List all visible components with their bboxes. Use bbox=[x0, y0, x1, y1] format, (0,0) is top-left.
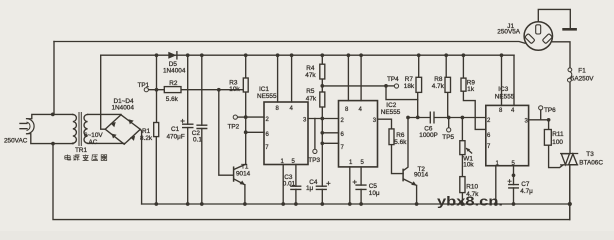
svg-text:R4: R4 bbox=[306, 65, 315, 72]
svg-text:10k: 10k bbox=[463, 161, 474, 168]
svg-text:F1: F1 bbox=[578, 67, 586, 74]
svg-text:IC3: IC3 bbox=[498, 86, 508, 93]
svg-text:NE555: NE555 bbox=[257, 93, 277, 100]
svg-text:AC: AC bbox=[89, 139, 98, 146]
svg-text:TR1: TR1 bbox=[75, 147, 88, 154]
svg-text:TP6: TP6 bbox=[544, 107, 556, 114]
svg-text:250V5A: 250V5A bbox=[497, 29, 520, 36]
svg-text:5.6k: 5.6k bbox=[166, 96, 179, 103]
svg-text:4.7k: 4.7k bbox=[432, 83, 445, 90]
svg-text:1N4004: 1N4004 bbox=[112, 104, 135, 111]
svg-text:NE555: NE555 bbox=[495, 94, 515, 101]
svg-text:R8: R8 bbox=[434, 76, 443, 83]
svg-text:T1: T1 bbox=[241, 163, 249, 170]
svg-text:10k: 10k bbox=[229, 86, 240, 93]
svg-text:0.1: 0.1 bbox=[193, 137, 202, 144]
svg-text:9014: 9014 bbox=[236, 170, 251, 177]
svg-text:5.6k: 5.6k bbox=[394, 139, 407, 146]
svg-text:NE555: NE555 bbox=[381, 109, 401, 116]
svg-text:R2: R2 bbox=[169, 80, 178, 87]
svg-text:IC1: IC1 bbox=[259, 86, 269, 93]
svg-text:1k: 1k bbox=[467, 86, 475, 93]
svg-text:47k: 47k bbox=[305, 72, 316, 79]
svg-text:R11: R11 bbox=[552, 131, 564, 138]
svg-text:TP5: TP5 bbox=[442, 134, 454, 141]
svg-text:C7: C7 bbox=[521, 181, 530, 188]
svg-text:R6: R6 bbox=[396, 132, 405, 139]
svg-text:47k: 47k bbox=[306, 95, 317, 102]
svg-text:9014: 9014 bbox=[414, 172, 429, 179]
svg-text:TP2: TP2 bbox=[228, 123, 240, 130]
svg-text:TP4: TP4 bbox=[387, 76, 399, 83]
svg-text:470μF: 470μF bbox=[167, 134, 185, 141]
svg-text:C5: C5 bbox=[369, 183, 378, 190]
svg-text:1000P: 1000P bbox=[419, 132, 437, 139]
svg-text:250VAC: 250VAC bbox=[4, 138, 28, 145]
svg-text:1μ: 1μ bbox=[306, 185, 314, 192]
svg-text:18k: 18k bbox=[404, 83, 415, 90]
svg-text:0.01: 0.01 bbox=[283, 181, 296, 188]
svg-text:4.7μ: 4.7μ bbox=[520, 188, 533, 195]
svg-text:10μ: 10μ bbox=[369, 190, 380, 197]
svg-text:1N4004: 1N4004 bbox=[163, 67, 186, 74]
svg-text:C1: C1 bbox=[171, 126, 180, 133]
svg-text:5A250V: 5A250V bbox=[571, 75, 594, 82]
svg-text:R10: R10 bbox=[466, 183, 478, 190]
svg-text:100: 100 bbox=[552, 139, 563, 146]
svg-text:TP1: TP1 bbox=[138, 82, 150, 89]
svg-text:ybx8.cn.: ybx8.cn. bbox=[437, 194, 503, 209]
svg-text:BTA06C: BTA06C bbox=[579, 159, 603, 166]
svg-text:8.2k: 8.2k bbox=[140, 135, 153, 142]
svg-text:R5: R5 bbox=[306, 88, 315, 95]
svg-text:T3: T3 bbox=[586, 151, 594, 158]
svg-text:TP3: TP3 bbox=[308, 157, 320, 164]
